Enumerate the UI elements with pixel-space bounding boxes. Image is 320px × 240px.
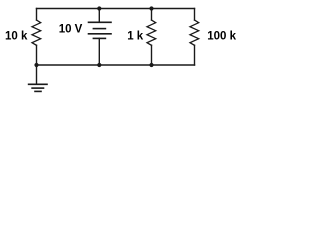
ground	[29, 65, 47, 91]
svg-text:1 k: 1 k	[127, 31, 144, 43]
resistor 10 k	[32, 9, 41, 66]
svg-text:10 k: 10 k	[5, 30, 28, 42]
junction dot top 1k	[149, 6, 153, 10]
junction dot bottom battery	[97, 63, 101, 67]
svg-text:100 k: 100 k	[207, 31, 236, 43]
junction dot bottom left ground	[34, 63, 38, 67]
svg-text:10 V: 10 V	[59, 24, 83, 36]
resistor 100 k	[190, 9, 199, 66]
wire top rail	[37, 8, 195, 10]
battery V1 10 V	[89, 9, 112, 66]
resistor 1 k	[147, 9, 156, 66]
junction dot bottom 1k	[149, 63, 153, 67]
junction dot top battery	[97, 6, 101, 10]
wire bottom rail	[37, 64, 195, 66]
